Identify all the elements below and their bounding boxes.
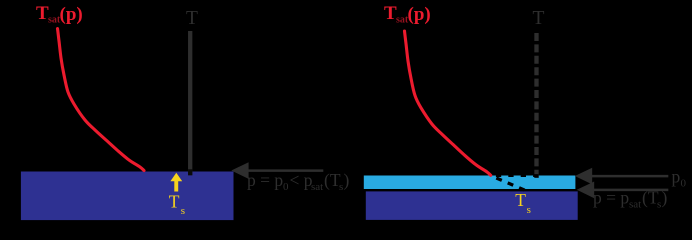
svg-text:): ) — [344, 170, 350, 190]
svg-text:p: p — [672, 167, 681, 187]
svg-text:< p: < p — [290, 170, 313, 190]
svg-text:(p): (p) — [408, 4, 431, 25]
svg-text:p = p: p = p — [247, 170, 283, 190]
svg-text:s: s — [181, 205, 185, 217]
svg-text:T: T — [186, 8, 198, 29]
svg-text:sat: sat — [311, 181, 323, 193]
svg-text:p = p: p = p — [593, 188, 629, 208]
svg-text:0: 0 — [283, 181, 289, 193]
svg-text:T: T — [515, 190, 526, 210]
svg-text:0: 0 — [681, 178, 687, 190]
svg-text:s: s — [527, 204, 531, 216]
svg-text:T: T — [533, 8, 545, 29]
svg-text:): ) — [662, 188, 668, 208]
svg-text:T: T — [169, 192, 180, 212]
svg-text:(p): (p) — [60, 4, 83, 25]
svg-text:sat: sat — [629, 199, 641, 211]
